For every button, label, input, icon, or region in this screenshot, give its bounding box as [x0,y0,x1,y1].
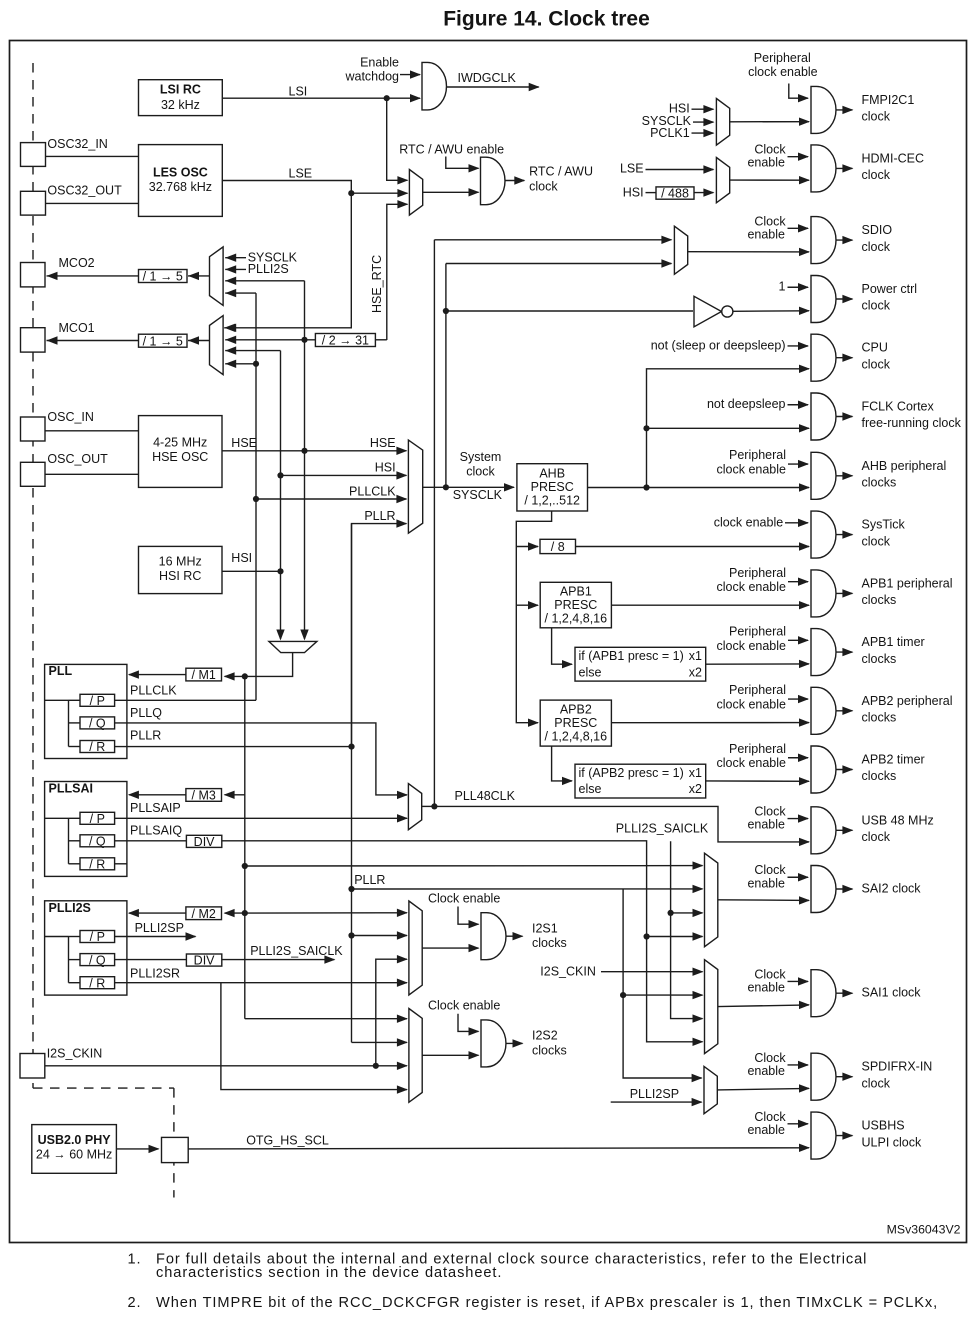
svg-text:x1: x1 [689,649,702,663]
label output APB1t line2 [862,652,897,666]
arrow into MCO2 pad [47,272,58,280]
label MCO2 [59,256,95,270]
label System [460,450,502,464]
svg-text:/ Q: / Q [89,717,106,731]
wire stub SYSCLK into MCO2 mux [225,257,246,259]
label PRESC (APB2) [554,716,597,730]
arrow /M2 into PLLI2S box [128,909,139,917]
label output APB2t line1 [862,753,925,767]
arrow into SDIO gate input 2 [799,248,810,256]
arrow into SysTick gate input 2 [799,542,810,550]
label Enable watchdog line2 [344,69,399,83]
label enable SDIO line1 [754,214,786,228]
arrow /M1 into PLL box [128,670,139,678]
wire /M2 into PLLI2S [129,912,186,914]
svg-text:MCO2: MCO2 [59,256,95,270]
wire HSE into MCO1 mux and /2->31 divider [225,339,315,341]
arrow into SAI2 mux input 3 [693,909,704,917]
prescaler box APB1 PRESC [540,582,611,628]
svg-text:enable: enable [747,1123,785,1137]
label I2S1 clocks [532,936,567,950]
label enable USB48 line1 [754,805,786,819]
wire I2S2 mux output [422,1054,478,1056]
divider box / 488 [656,187,694,201]
wire APB1 to timer multiplier [552,628,572,664]
svg-text:Figure 14. Clock tree: Figure 14. Clock tree [443,8,650,31]
wire APB1 timer clock [706,663,809,665]
svg-text:PCLK1: PCLK1 [650,126,690,140]
divider box / Q (PLLSAI) [80,835,115,849]
wire PLL48CLK to USB gate [434,806,809,842]
label enable FMPI2C1 line2 [748,65,818,79]
wire enable APB2t [788,757,808,759]
node junction PLLR to SAI2 [348,886,354,892]
wire RTC mux output [423,191,479,193]
arrow I2S2 clocks [513,1039,524,1047]
node junction PLLR to SAI1 [620,992,626,998]
divider box DIV (PLLSAI) [186,835,221,849]
wire OSC_OUT to HSE OSC [45,473,139,475]
node junction PLLCLK trunk [253,496,259,502]
svg-text:clock: clock [862,240,891,254]
wire MCO2 from divider to pad [47,275,139,277]
arrow USB48 output [842,826,853,834]
arrow enable into APB2t gate [798,754,809,762]
wire PLLI2SP into SPDIFRX mux [611,1101,702,1103]
figure title [443,8,650,31]
node junction PLLR trunk [348,744,354,750]
arrow into SAI1 mux input 2 [693,991,704,999]
wire PLLI2S_SAICLK to SAI2 mux [671,912,703,914]
svg-text:32.768 kHz: 32.768 kHz [149,180,212,194]
node junction LSE branch [348,190,354,196]
arrow into IWDG gate input 1 [410,70,421,78]
svg-text:OTG_HS_SCL: OTG_HS_SCL [246,1133,329,1147]
arrow into APB2 timer gate input 2 [799,777,810,785]
svg-text:PLLCLK: PLLCLK [349,484,396,498]
mux 48 MHz clock select [408,784,421,830]
wire HSI from HSI RC to trunk [222,570,281,572]
wire I2S2 clock enable [458,1014,479,1032]
node junction HSI at oscillator output [277,568,283,574]
not-gate bubble [722,306,733,317]
wire HSI into MCO1 mux [225,350,280,352]
label LSE [289,167,313,181]
label output AHB line1 [862,459,947,473]
label enable SAI1 line2 [747,981,785,995]
svg-text:1.: 1. [128,1252,142,1268]
arrow HDMI-CEC output [842,164,853,172]
label output USB48 line1 [862,813,934,827]
label PLLSAIQ [130,824,182,838]
divider box / P (PLLI2S) [80,930,115,944]
label PLLI2SP (SPDIFRX) [630,1087,679,1101]
wire MCO1 mux output to divider [188,340,210,342]
node square ULPI [162,1137,189,1162]
oscillator box HSI RC [139,546,223,593]
node junction FCLK feed [643,425,649,431]
arrow Power ctrl output [842,295,853,303]
wire trunk PLL48CLK vertical [433,240,435,807]
label output FMPI2C1 line1 [862,93,915,107]
svg-text:HSI: HSI [375,461,396,475]
wire PLLR to I2S2 mux [352,1041,407,1043]
wire enable USB48 [788,818,809,820]
arrow into RTC mux input 2 [397,189,408,197]
and-gate FCLK clock gate [811,393,836,440]
label I2S1 [532,921,558,935]
wire /M1 into PLL [129,674,186,676]
arrow APB2t output [842,765,853,773]
label if APB1 line2 [579,665,602,679]
wire trunk HSI vertical [280,351,282,639]
svg-text:x1: x1 [689,766,702,780]
wire SYSCLK into FMPI2C1 mux [693,121,713,123]
svg-text:clocks: clocks [862,711,897,725]
arrow into RTC gate input 2 [469,188,480,196]
svg-text:Power ctrl: Power ctrl [862,282,918,296]
mux SPDIFRX clock select [704,1066,717,1113]
node junction HSE trunk [301,448,307,454]
svg-text:OSC_OUT: OSC_OUT [47,452,108,466]
and-gate AHB clock gate [811,452,836,499]
svg-text:APB1 peripheral: APB1 peripheral [862,576,953,590]
mux I2S2 clock select [409,1009,422,1103]
svg-text:PLLR: PLLR [130,729,161,743]
label enable APB2p line2 [717,698,787,712]
svg-text:not deepsleep: not deepsleep [707,397,786,411]
label AHB ratio [524,494,580,508]
and-gate RTC / AWU clock gate [481,157,506,205]
arrow into Power ctrl gate input 2 [799,307,810,315]
wire IWDGCLK output [447,86,539,88]
label PLLI2S [49,901,91,915]
wire enable SAI2 [788,876,809,878]
label PLLI2S_SAICLK (left) [250,944,343,958]
arrow enable into USB48 gate [798,814,809,822]
svg-text:Clock: Clock [754,214,786,228]
divider box / Q (PLL) [80,717,115,731]
label output APB2p line1 [862,694,953,708]
wire PLLR to SAI2 mux [352,888,703,890]
svg-text:clock enable: clock enable [717,756,787,770]
wire Power ctrl output [836,298,852,300]
label OSC32_IN [47,137,107,151]
svg-text:Peripheral: Peripheral [729,448,786,462]
label LSI [289,84,308,98]
node junction PLL48CLK trunk [431,803,437,809]
node junction HSE at MCO1 input [301,337,307,343]
arrow enable into SAI2 gate [798,873,809,881]
wire PLLI2SR from /R to I2S1 mux [115,982,407,984]
wire CPU/FCLK feed vertical [647,369,810,488]
divider box / R (PLL) [80,740,115,754]
arrow into /8 divider [528,542,539,550]
label PLLSAIP [130,801,181,815]
svg-text:else: else [579,782,602,796]
svg-text:enable: enable [747,818,785,832]
label HSI (HDMI) [623,186,644,200]
label Enable watchdog line1 [360,55,399,69]
wire I2S1 output [506,935,523,937]
arrow into SPDIFRX mux input 1 [692,1074,703,1082]
wire AHB PRESC output [588,487,810,489]
wire trunk SYSCLK vertical [445,264,447,488]
dashed chip boundary (jog vertical) [173,1088,175,1197]
wire HSE into MCO2 mux [225,280,304,282]
wire RTC enable into gate [446,157,479,169]
label output AHB line2 [862,476,897,490]
wire APB1 output [611,604,809,606]
label output HDMI-CEC line1 [862,151,925,165]
label enable SDIO line2 [747,227,785,241]
svg-text:/ 1,2,4,8,16: / 1,2,4,8,16 [545,611,608,625]
arrow IWDGCLK [529,83,540,91]
svg-text:PLLI2S: PLLI2S [49,901,91,915]
wire to /M1 divider [225,675,245,677]
svg-text:clocks: clocks [862,652,897,666]
svg-text:/ M1: / M1 [192,668,216,682]
wire branch to /8 divider [516,546,538,548]
footnote 1 line 2 [156,1265,502,1281]
label PLLI2SR [130,966,180,980]
svg-text:enable: enable [747,981,785,995]
svg-text:clock: clock [466,465,495,479]
svg-text:PRESC: PRESC [531,480,574,494]
svg-text:PRESC: PRESC [554,716,597,730]
label AHB [539,467,565,481]
pad MCO2 [21,263,46,287]
svg-text:characteristics section in the: characteristics section in the device da… [156,1265,502,1281]
wire HSE_RTC up into RTC mux [387,204,408,340]
svg-text:Clock enable: Clock enable [428,999,500,1013]
wire PLLSAIQ-DIV to SAI2 mux [647,936,703,938]
arrow into /M3 divider [224,791,235,799]
label output USBHS line2 [862,1135,922,1149]
arrow into AHB PRESC [504,483,515,491]
label APB1 [560,585,592,599]
svg-text:clock: clock [862,1076,891,1090]
arrow into SPDIFRX mux input 2 [692,1098,703,1106]
wire enable APB1t [788,639,808,641]
svg-text:clocks: clocks [862,476,897,490]
wire PLL source mux output [245,653,293,677]
wire /8 output to SysTick [576,546,810,548]
label enable AHB line2 [717,463,787,477]
arrow into I2S2 mux input 2 [397,1038,408,1046]
wire SysTick output [836,534,852,536]
wire APB2 timer clock [706,780,809,782]
svg-text:PLLSAIP: PLLSAIP [130,801,181,815]
wire /488 to HDMI mux [694,192,713,194]
arrow into APB1 peripheral gate input 2 [799,601,810,609]
label output APB1p line2 [862,593,897,607]
svg-text:clocks: clocks [862,769,897,783]
arrow MCO2 mux input 2 [225,265,236,273]
wire HSI into /488 divider [646,192,657,194]
wire OSC32_OUT to LES OSC [46,202,139,204]
arrow MCO1 mux input 3 [225,346,236,354]
svg-text:SYSCLK: SYSCLK [453,488,503,502]
label PLLR (SAI area) [354,873,385,887]
svg-text:RTC / AWU enable: RTC / AWU enable [399,143,504,157]
wire LSE to RTC mux [351,192,407,194]
arrow into AHB peripheral gate input 2 [799,483,810,491]
svg-text:FCLK Cortex: FCLK Cortex [862,400,935,414]
label MSv36043V2 [887,1223,961,1237]
label enable APB1p line2 [717,580,787,594]
divider box / 1 -> 5 (MCO2) [139,270,188,284]
arrow into SDIO mux input 2 [661,259,672,267]
svg-text:/ P: / P [90,694,105,708]
node junction LSI branch [384,95,390,101]
label enable HDMI-CEC line1 [754,143,786,157]
pad OSC32_IN [21,143,46,167]
arrow enable into FCLK gate [798,401,809,409]
pad I2S_CKIN [20,1054,45,1079]
svg-text:AHB peripheral: AHB peripheral [862,459,947,473]
wire PLLI2SP output [115,936,196,938]
arrow PLLSAIP into PLL48 mux input 2 [397,814,408,822]
label APB2 [560,703,592,717]
label output Power ctrl line2 [862,299,891,313]
arrow enable into HDMI-CEC gate [798,152,809,160]
arrow into APB1 PRESC [528,601,539,609]
wire enable Power ctrl [788,286,809,288]
svg-text:/ Q: / Q [89,835,106,849]
svg-text:clocks: clocks [532,936,567,950]
footnote 2 number [128,1295,142,1311]
svg-text:/ R: / R [89,976,105,990]
wire SAI2 output [836,888,852,890]
label if APB2 line2 [579,782,602,796]
label enable SysTick [714,515,784,529]
arrow /M3 into PLLSAI box [128,791,139,799]
arrow into I2S1 mux input 1 [397,909,408,917]
node junction PLLCLK at MCO1 input [253,361,259,367]
svg-text:PLLR: PLLR [364,509,395,523]
svg-text:Peripheral: Peripheral [729,566,786,580]
label HSI (at oscillator) [231,551,252,565]
svg-text:SysTick: SysTick [862,518,906,532]
label enable CPU [651,338,786,352]
svg-text:SAI1 clock: SAI1 clock [862,986,922,1000]
wire SYSCLK to SDIO mux [446,263,672,265]
svg-text:clock enable: clock enable [748,65,818,79]
arrow into MCO2 divider [188,272,199,280]
wire enable FCLK [788,404,809,406]
wire /M3 from trunk [225,794,245,796]
label enable APB1t line2 [717,639,787,653]
label MCO1 [59,321,95,335]
svg-text:I2S2: I2S2 [532,1029,558,1043]
svg-text:PLLI2S_SAICLK: PLLI2S_SAICLK [250,944,343,958]
arrow enable into SPDIFRX gate [798,1061,809,1069]
label enable SAI1 line1 [754,967,786,981]
svg-text:clock: clock [862,534,891,548]
wire SDIO mux output [688,251,809,253]
svg-text:HSI RC: HSI RC [159,569,201,583]
label enable USBHS line2 [747,1123,785,1137]
label enable HDMI-CEC line2 [747,156,785,170]
arrow APB2p output [842,707,853,715]
arrow into FMPI2C1 gate input 2 [799,117,810,125]
svg-text:AHB: AHB [539,467,565,481]
svg-text:I2S_CKIN: I2S_CKIN [540,965,596,979]
label output SysTick line1 [862,518,906,532]
arrow into USB gate input 2 [799,838,810,846]
wire USB48 output [836,829,852,831]
arrow enable into USBHS gate [798,1120,809,1128]
svg-text:Clock enable: Clock enable [428,891,500,905]
label Clock enable (I2S2) [428,999,500,1013]
pll internal input bus [45,700,80,746]
divider box DIV (PLLI2S) [186,954,221,968]
svg-text:2.: 2. [128,1295,142,1311]
mux SAI1 clock select [705,960,718,1054]
svg-text:SPDIFRX-IN: SPDIFRX-IN [862,1060,933,1074]
arrow into I2S2 mux input 4 [397,1085,408,1093]
label if APB2 line1 [579,766,684,780]
arrow into APB1 timer gate input 2 [799,660,810,668]
label PCLK1 (FMPI2C1) [650,126,690,140]
arrow into APB2 peripheral gate input 2 [799,718,810,726]
arrow USBHS output [842,1131,853,1139]
arrow FMPI2C1 mux input 3 [703,129,714,137]
arrow HSI into SYSCLK mux input 2 [396,471,407,479]
svg-text:PLL48CLK: PLL48CLK [455,789,516,803]
svg-text:Clock: Clock [754,1051,786,1065]
svg-text:LSI: LSI [289,84,308,98]
wire PLLSAIQ-DIV trunk [222,841,703,1042]
wire PLLCLK into MCO1 mux [225,363,256,365]
arrow into I2S1 gate input 1 [469,920,480,928]
label if APB1 line1 [579,649,684,663]
dashed chip boundary (vertical left) [32,63,34,1088]
label if APB1 x1 [689,649,702,663]
svg-text:CPU: CPU [862,341,888,355]
arrow HSI into PLL source mux [276,630,284,641]
arrow MCO1 mux input 2 [225,336,236,344]
label RTC / AWU clock line2 [529,179,558,193]
label PLLI2SP [135,921,184,935]
svg-text:OSC32_IN: OSC32_IN [47,137,107,151]
arrow CPU output [842,354,853,362]
svg-text:USB2.0 PHY: USB2.0 PHY [38,1133,112,1147]
label output CPU line2 [862,357,891,371]
svg-text:HDMI-CEC: HDMI-CEC [862,151,925,165]
arrow MCO1 mux input 4 [225,360,236,368]
label enable SPDIFRX line1 [754,1051,786,1065]
mux FMPI2C1 clock select [716,99,729,146]
arrow into SAI1 gate input 2 [799,1001,810,1009]
svg-text:PLL: PLL [49,664,73,678]
and-gate I2S2 clock gate [481,1020,506,1067]
wire PLLI2SQ to DIV [115,959,187,961]
divider box / R (PLLI2S) [80,976,115,990]
svg-text:I2S1: I2S1 [532,921,558,935]
svg-text:PLLSAIQ: PLLSAIQ [130,824,182,838]
label enable SPDIFRX line2 [747,1064,785,1078]
svg-text:PLLQ: PLLQ [130,706,162,720]
wire HSI into FMPI2C1 mux [692,108,714,110]
arrow into /M2 divider [224,909,235,917]
wire PLLR to SYSCLK mux [352,524,407,747]
divider box / M2 [186,907,222,921]
svg-text:x2: x2 [689,782,702,796]
arrow into APB2 PRESC [528,719,539,727]
label I2S_CKIN (SAI1) [540,965,596,979]
